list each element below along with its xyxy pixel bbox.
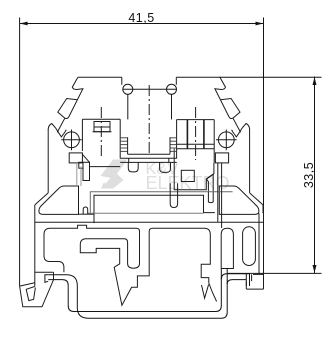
- svg-text:33,5: 33,5: [302, 162, 316, 188]
- svg-text:41,5: 41,5: [128, 11, 154, 25]
